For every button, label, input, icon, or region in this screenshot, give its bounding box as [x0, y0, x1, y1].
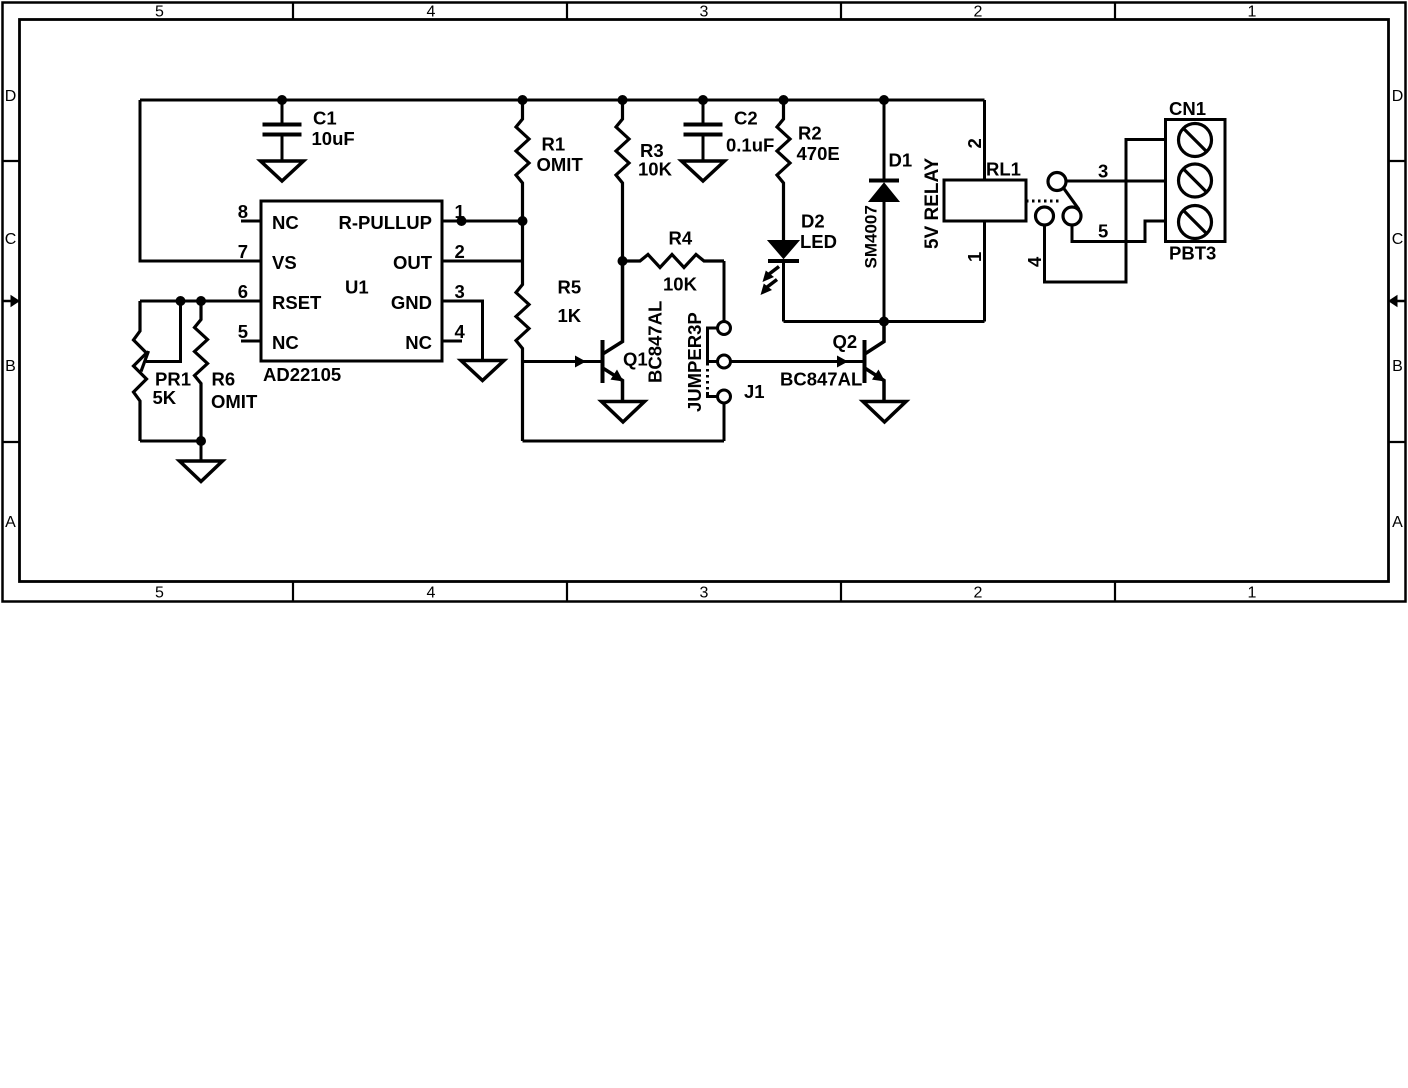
junction PR1 R6 ground node: [196, 436, 206, 446]
svg-text:OMIT: OMIT: [211, 391, 258, 412]
svg-text:4: 4: [427, 4, 436, 21]
svg-text:8: 8: [238, 201, 248, 222]
resistor R4: [623, 255, 725, 268]
svg-text:1K: 1K: [558, 305, 582, 326]
resistor R1: [516, 100, 529, 221]
svg-text:5: 5: [238, 321, 248, 342]
wire pole pin 3 to CN1: [1066, 180, 1166, 183]
frame column labels bottom: [155, 585, 1257, 602]
frame column ticks bottom: [293, 582, 1115, 602]
svg-text:2: 2: [455, 241, 465, 262]
U1 pin 1 R-PULLUP: [442, 220, 523, 223]
relay RL1 coil box: [944, 180, 1026, 221]
junction R2 on VS rail: [779, 95, 789, 105]
junction R1 pin1 net: [518, 216, 528, 226]
wire bottom rail to jumper pin3: [523, 440, 725, 443]
svg-text:BC847AL: BC847AL: [645, 301, 666, 383]
junction C2 on VS rail: [698, 95, 708, 105]
ground for Q2: [863, 402, 906, 423]
wire relay pin1 drop: [983, 221, 986, 322]
svg-text:10uF: 10uF: [312, 128, 355, 149]
svg-text:SM4007: SM4007: [862, 205, 881, 268]
wire PR1/R6 bottom: [140, 441, 201, 461]
potentiometer PR1 wiper slash: [141, 351, 149, 372]
svg-text:5: 5: [155, 585, 164, 602]
svg-text:5: 5: [155, 4, 164, 21]
diode D1 SM4007: [869, 100, 899, 322]
jumper J1 JUMPER3P: [708, 322, 731, 404]
svg-text:10K: 10K: [663, 274, 698, 295]
svg-text:5K: 5K: [153, 387, 177, 408]
svg-text:BC847AL: BC847AL: [780, 369, 862, 390]
frame center arrow left: [3, 295, 21, 307]
svg-text:5: 5: [1098, 221, 1108, 242]
frame row ticks right: [1389, 161, 1406, 442]
svg-text:3: 3: [700, 4, 709, 21]
svg-text:OMIT: OMIT: [537, 154, 584, 175]
svg-text:C: C: [5, 231, 17, 248]
LED D2: [761, 241, 800, 322]
svg-text:R4: R4: [669, 228, 693, 249]
svg-text:D: D: [1392, 88, 1404, 105]
wire left VS drop to pin 7: [140, 100, 261, 261]
capacitor C2: [684, 100, 723, 161]
svg-text:LED: LED: [800, 231, 837, 252]
svg-text:2: 2: [964, 138, 985, 148]
resistor R6: [195, 301, 208, 441]
svg-text:6: 6: [238, 281, 248, 302]
svg-text:10K: 10K: [638, 159, 673, 180]
junction PR1 wiper on RSET net: [176, 296, 186, 306]
svg-text:4: 4: [1024, 256, 1045, 267]
svg-text:VS: VS: [272, 252, 297, 273]
svg-text:NC: NC: [272, 332, 299, 353]
frame row labels right: [1392, 88, 1404, 531]
relay switch throw 4 contact: [1036, 207, 1054, 225]
svg-text:1: 1: [964, 252, 985, 262]
CN1 screw terminal 1: [1179, 124, 1212, 157]
wire R4 to jumper pin1: [723, 261, 726, 322]
svg-text:R1: R1: [542, 134, 566, 155]
ground for C2: [682, 161, 725, 181]
U1 pin 5 NC: [241, 340, 261, 343]
relay switch throw 5 contact: [1063, 207, 1081, 225]
frame center arrow right: [1388, 295, 1406, 307]
svg-text:B: B: [1392, 358, 1403, 375]
svg-text:J1: J1: [744, 381, 765, 402]
frame inner border: [20, 20, 1389, 582]
CN1 screw terminal 3: [1179, 206, 1212, 239]
frame row labels left: [5, 88, 17, 531]
junction R6 on RSET net: [196, 296, 206, 306]
U1 pin 8 NC: [241, 220, 261, 223]
svg-text:2: 2: [974, 585, 983, 602]
resistor R5: [516, 221, 529, 441]
svg-text:OUT: OUT: [393, 252, 433, 273]
junction R3 R4 Q1 collector node: [618, 256, 628, 266]
frame row ticks left: [3, 161, 20, 442]
svg-text:JUMPER3P: JUMPER3P: [684, 312, 705, 412]
svg-text:R6: R6: [212, 369, 236, 390]
svg-text:3: 3: [700, 585, 709, 602]
junction D1 on VS rail: [879, 95, 889, 105]
junction C1 on VS rail: [277, 95, 287, 105]
IC U1 AD22105: [261, 201, 442, 361]
svg-text:CN1: CN1: [1169, 98, 1206, 119]
transistor Q2 BC847AL: [837, 322, 885, 401]
LED D2 light arrows: [769, 267, 780, 275]
svg-text:4: 4: [427, 585, 436, 602]
U1 pin 4 NC: [442, 340, 462, 343]
relay switch blade: [1064, 188, 1080, 210]
svg-text:RL1: RL1: [986, 159, 1021, 180]
wire jumper pin3 down: [723, 403, 726, 441]
svg-text:R-PULLUP: R-PULLUP: [338, 212, 432, 233]
ground for Q1: [602, 402, 645, 423]
svg-text:R2: R2: [798, 123, 822, 144]
svg-text:C1: C1: [313, 108, 337, 129]
svg-text:C: C: [1392, 231, 1404, 248]
frame column labels top: [155, 4, 1257, 21]
svg-text:B: B: [5, 358, 16, 375]
svg-text:NC: NC: [405, 332, 432, 353]
junction R3 on VS rail: [618, 95, 628, 105]
potentiometer PR1 wiper wire: [146, 301, 181, 362]
svg-text:3: 3: [455, 281, 465, 302]
svg-text:1: 1: [1248, 585, 1257, 602]
frame column ticks top: [293, 3, 1115, 20]
ground for C1: [261, 161, 304, 181]
svg-text:RSET: RSET: [272, 292, 322, 313]
svg-text:470E: 470E: [797, 143, 840, 164]
svg-text:NC: NC: [272, 212, 299, 233]
ground for U1 pin 3: [461, 361, 504, 381]
svg-text:4: 4: [455, 321, 466, 342]
U1 pin 6 RSET: [140, 300, 261, 303]
resistor R2: [777, 100, 790, 241]
U1 pin 2 OUT: [442, 260, 523, 263]
svg-text:0.1uF: 0.1uF: [726, 135, 774, 156]
svg-text:R5: R5: [558, 277, 582, 298]
svg-text:Q2: Q2: [833, 331, 858, 352]
svg-text:GND: GND: [391, 292, 432, 313]
svg-text:A: A: [1392, 514, 1403, 531]
svg-text:3: 3: [1098, 161, 1108, 182]
relay actuator dotted link: [1026, 200, 1060, 203]
wire relay pin2 drop: [983, 100, 986, 180]
svg-text:1: 1: [1248, 4, 1257, 21]
svg-text:2: 2: [974, 4, 983, 21]
frame outer border: [3, 3, 1406, 602]
svg-text:AD22105: AD22105: [263, 364, 341, 385]
svg-text:A: A: [5, 514, 16, 531]
transistor Q1 BC847AL: [523, 261, 624, 400]
junction Q2 collector node: [879, 317, 889, 327]
resistor R3: [616, 100, 629, 261]
svg-text:D2: D2: [801, 211, 825, 232]
potentiometer PR1: [134, 301, 147, 441]
wire D2 bottom rail: [784, 320, 985, 323]
capacitor C1: [263, 100, 302, 161]
svg-text:D: D: [5, 88, 17, 105]
junction R1 on VS rail: [518, 95, 528, 105]
wire jumper pin2 to Q2 base: [731, 360, 865, 363]
connector CN1 PBT3: [1166, 120, 1226, 242]
svg-text:U1: U1: [345, 277, 369, 298]
wire VS top rail: [140, 99, 985, 102]
wire throw pin 4 to CN1 top: [1045, 140, 1166, 283]
ground for PR1/R6: [180, 461, 223, 482]
wire throw pin 5 to CN1 bottom: [1072, 221, 1166, 242]
junction pin1 stub: [457, 216, 467, 226]
CN1 screw terminal 2: [1179, 164, 1212, 197]
U1 pin 3 GND: [442, 301, 483, 361]
relay switch pole contact: [1048, 173, 1066, 191]
svg-text:7: 7: [238, 241, 248, 262]
svg-text:PBT3: PBT3: [1169, 243, 1216, 264]
svg-text:C2: C2: [734, 108, 758, 129]
svg-text:5V RELAY: 5V RELAY: [922, 158, 943, 249]
svg-text:D1: D1: [889, 150, 913, 171]
